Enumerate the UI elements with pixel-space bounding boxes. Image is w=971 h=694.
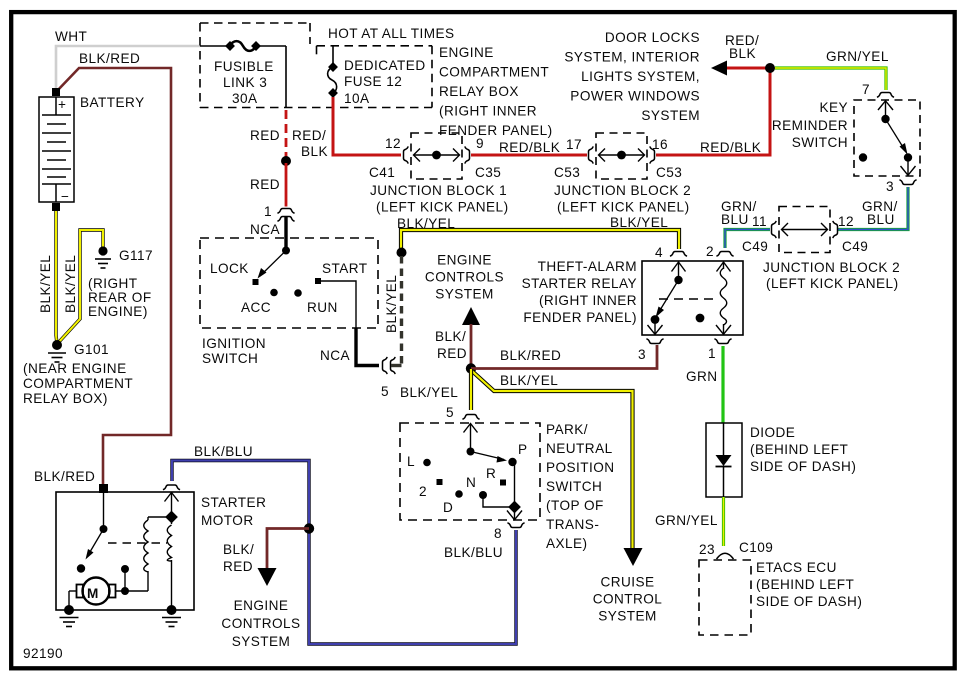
wire GRN/BLU C49 to relay pin 2 [725,230,770,249]
ignition switch arm [253,247,291,286]
starter M wiring [69,565,148,610]
ignition terminal ACC [270,289,278,297]
svg-text:C49: C49 [842,239,868,254]
wire RED from dedicated fuse to C41 [333,97,401,155]
svg-text:BLK/YEL: BLK/YEL [63,255,78,313]
svg-text:1: 1 [264,204,272,219]
svg-text:11: 11 [752,214,767,229]
svg-text:D: D [443,500,453,515]
svg-text:BLK/BLU: BLK/BLU [194,444,253,459]
wire NCA thick to connector [356,328,379,366]
svg-text:ENGINE: ENGINE [234,598,289,613]
svg-text:RELAY BOX: RELAY BOX [439,84,519,99]
svg-text:2: 2 [419,484,427,499]
svg-text:BLK/: BLK/ [435,329,466,344]
svg-text:NEUTRAL: NEUTRAL [546,441,613,456]
svg-text:RED/BLK: RED/BLK [700,140,761,155]
relay internal dashed link [659,298,716,300]
svg-text:SYSTEM: SYSTEM [598,609,657,624]
svg-text:MOTOR: MOTOR [201,513,254,528]
svg-text:STARTER RELAY: STARTER RELAY [522,276,637,291]
svg-text:NCA: NCA [250,222,281,237]
connector pin 5 park/neutral [462,415,479,420]
theft-alarm starter relay box [642,261,743,335]
svg-text:M: M [87,586,99,601]
svg-text:LOCK: LOCK [210,261,249,276]
svg-text:NCA: NCA [320,348,351,363]
svg-text:BLK/YEL: BLK/YEL [610,215,668,230]
svg-text:CRUISE: CRUISE [600,575,654,590]
svg-text:FENDER PANEL): FENDER PANEL) [523,310,637,325]
label ENGINE CONTROLS SYSTEM (upper) [425,253,504,302]
svg-text:ENGINE): ENGINE) [88,304,148,319]
svg-text:BLK/YEL: BLK/YEL [38,255,53,313]
svg-text:SYSTEM: SYSTEM [232,634,291,649]
svg-text:BLK/: BLK/ [223,542,254,557]
svg-text:+: + [58,97,66,112]
svg-text:12: 12 [385,136,401,151]
svg-text:SYSTEM: SYSTEM [435,287,494,302]
svg-text:ENGINE: ENGINE [437,253,492,268]
svg-text:SYSTEM, INTERIOR: SYSTEM, INTERIOR [564,50,700,65]
svg-text:FUSE 12: FUSE 12 [344,74,402,89]
svg-text:BLK/YEL: BLK/YEL [500,373,558,388]
svg-text:BLK/RED: BLK/RED [34,469,95,484]
label ENGINE CONTROLS SYSTEM (lower) [221,598,300,649]
wire WHT from battery + to fusible link [56,46,200,91]
junction connector C53/C53 junction block 2 [589,133,655,179]
svg-text:C53: C53 [656,165,682,180]
svg-text:POWER WINDOWS: POWER WINDOWS [570,89,700,104]
svg-text:SWITCH: SWITCH [202,351,258,366]
wire BLK/RED node to engine controls arrow [267,529,309,570]
node battery negative terminal [52,203,60,211]
svg-text:POSITION: POSITION [546,460,615,475]
connector pin 3 relay [646,339,663,344]
ignition switch box (dashed) [200,238,378,328]
svg-text:ETACS ECU: ETACS ECU [756,560,837,575]
svg-text:BLK/RED: BLK/RED [500,348,561,363]
connector pin 2 relay [716,252,733,257]
svg-text:BLK/YEL: BLK/YEL [400,385,458,400]
fusible link box (dashed) [200,23,432,108]
svg-text:RED/BLK: RED/BLK [499,140,560,155]
svg-text:92190: 92190 [23,646,63,661]
svg-text:(BEHIND LEFT: (BEHIND LEFT [756,577,854,592]
starter internal dashed link [108,542,167,544]
svg-text:SIDE OF DASH): SIDE OF DASH) [750,459,856,474]
svg-text:30A: 30A [232,91,258,106]
svg-text:BLK/BLU: BLK/BLU [444,545,503,560]
connector starter motor pin [163,485,180,490]
svg-text:DOOR LOCKS: DOOR LOCKS [605,30,700,45]
svg-text:(LEFT KICK PANEL): (LEFT KICK PANEL) [557,200,690,215]
wire BLK/YEL battery to G101 [56,211,57,344]
svg-text:R: R [486,466,496,481]
fusible link FL3 element [200,41,286,107]
svg-text:L: L [407,454,415,469]
svg-text:5: 5 [381,384,389,399]
diode D1 [706,423,742,497]
park/neutral terminal 2 [437,479,443,485]
wire GRN/YEL diode to ETACS [722,497,725,546]
wire RED solid to ignition pin 1 [285,163,288,207]
wire NCA from START out of box [321,281,356,328]
svg-text:DIODE: DIODE [750,425,795,440]
svg-text:JUNCTION BLOCK 2: JUNCTION BLOCK 2 [554,183,691,198]
connector pin 4 relay [670,252,687,257]
svg-text:G101: G101 [74,342,109,357]
node at (770,68) [765,63,775,73]
svg-text:P: P [518,442,528,457]
svg-text:SWITCH: SWITCH [546,479,602,494]
svg-text:FENDER PANEL): FENDER PANEL) [439,123,553,138]
wire GRN/YEL node to key reminder switch [775,68,886,90]
svg-text:C35: C35 [475,165,501,180]
svg-text:17: 17 [566,137,582,152]
svg-text:G117: G117 [119,248,153,263]
wire BLK/YEL dashed short from connector [391,364,402,367]
wire black pin1 into ignition switch [284,217,287,249]
svg-text:BLU: BLU [721,212,749,227]
junction connector C49 [772,207,838,253]
svg-text:SWITCH: SWITCH [792,135,848,150]
connector pin 8 park/neutral [507,523,524,528]
svg-text:16: 16 [652,137,668,152]
svg-text:ENGINE: ENGINE [439,45,494,60]
svg-text:START: START [322,261,368,276]
svg-text:BLU: BLU [867,212,895,227]
connector pin 1 ignition switch (two halves) [277,209,294,214]
svg-text:CONTROLS: CONTROLS [221,616,300,631]
svg-text:C53: C53 [554,165,580,180]
svg-text:JUNCTION BLOCK 1: JUNCTION BLOCK 1 [370,183,507,198]
svg-text:9: 9 [476,136,484,151]
svg-text:GRN: GRN [686,369,718,384]
svg-text:STARTER: STARTER [201,495,266,510]
svg-text:C109: C109 [739,540,773,555]
wire RED dashed below fusible link [285,110,288,158]
svg-text:3: 3 [886,179,894,194]
svg-text:REAR OF: REAR OF [88,290,152,305]
label THEFT-ALARM STARTER RELAY (RIGHT INNER FENDER PANEL) [522,259,637,325]
svg-text:3: 3 [638,347,646,362]
svg-text:2: 2 [706,244,714,259]
wire RED/BLK stub to arrow [722,67,770,70]
wire RED/BLK between junction blocks [471,154,587,157]
ground starter right [162,605,181,627]
svg-text:RED: RED [437,346,467,361]
svg-text:GRN/YEL: GRN/YEL [826,49,889,64]
svg-text:WHT: WHT [55,29,87,44]
node on RED wire [281,156,291,166]
svg-text:RED: RED [250,128,280,143]
svg-text:1: 1 [708,346,716,361]
node starter BLK/RED terminal [99,484,108,493]
svg-text:RED: RED [223,559,253,574]
svg-text:RUN: RUN [307,300,338,315]
park/neutral terminal D [455,490,463,498]
svg-text:TRANS-: TRANS- [546,517,599,532]
svg-text:FUSIBLE: FUSIBLE [214,59,274,74]
svg-text:ACC: ACC [241,300,271,315]
svg-text:RELAY BOX): RELAY BOX) [23,391,108,406]
park/neutral internal wiring [464,424,523,520]
svg-text:SIDE OF DASH): SIDE OF DASH) [756,594,862,609]
junction connector C41/C35 junction block 1 [404,133,470,179]
label CRUISE CONTROL SYSTEM [593,575,663,624]
relay switch branch [648,262,686,334]
svg-text:(BEHIND LEFT: (BEHIND LEFT [750,442,848,457]
starter motor box [56,492,194,610]
svg-text:LIGHTS SYSTEM,: LIGHTS SYSTEM, [581,69,700,84]
starter pin arrow and coils [144,493,179,611]
svg-text:5: 5 [446,405,454,420]
ignition terminal RUN [294,289,302,297]
wire BLK/RED from battery + down left side [56,68,171,487]
wire BLK/YEL node to cruise control [472,371,633,548]
svg-text:C41: C41 [369,165,395,180]
svg-text:BLK/RED: BLK/RED [79,51,140,66]
wire BLK/BLU starter to park/neutral [172,461,516,645]
svg-text:JUNCTION BLOCK 2: JUNCTION BLOCK 2 [763,260,900,275]
svg-text:REMINDER: REMINDER [772,118,848,133]
svg-text:(LEFT KICK PANEL): (LEFT KICK PANEL) [766,276,899,291]
svg-text:(NEAR ENGINE: (NEAR ENGINE [23,361,127,376]
dedicated fuse box (dashed) [317,46,433,108]
svg-text:8: 8 [494,526,502,541]
svg-text:(LEFT KICK PANEL): (LEFT KICK PANEL) [376,200,509,215]
starter solenoid switch arm [77,492,108,573]
svg-text:GRN/YEL: GRN/YEL [655,513,718,528]
battery B1 [39,97,74,204]
svg-text:KEY: KEY [819,100,848,115]
svg-text:12: 12 [838,214,854,229]
svg-text:LINK 3: LINK 3 [223,75,267,90]
park/neutral terminal L [423,459,431,467]
starter M motor [77,578,116,605]
svg-text:CONTROLS: CONTROLS [425,270,504,285]
park/neutral position switch box (dashed) [400,423,540,520]
svg-text:HOT AT ALL TIMES: HOT AT ALL TIMES [328,26,455,41]
svg-text:(RIGHT INNER: (RIGHT INNER [439,104,537,119]
connector pin 7 key reminder switch [877,93,894,98]
svg-text:C49: C49 [742,239,768,254]
svg-text:7: 7 [862,82,870,97]
key reminder switch KRS [854,100,920,176]
svg-text:RED: RED [250,177,280,192]
node battery positive terminal [52,88,60,96]
connector C109 dome [717,553,734,559]
ground G117 [95,246,111,268]
park/neutral terminal R [500,480,506,486]
svg-text:BATTERY: BATTERY [80,95,145,110]
svg-text:−: − [61,189,69,204]
wire BLK/YEL node down to park/neutral pin 5 [469,369,473,410]
node BLK/YEL dot [397,248,407,258]
svg-text:BLK: BLK [729,46,756,61]
svg-text:THEFT-ALARM: THEFT-ALARM [538,259,637,274]
svg-text:RED/: RED/ [292,128,326,143]
svg-text:AXLE): AXLE) [546,536,588,551]
wire BLK/YEL dashed vertical [400,256,403,367]
ignition terminal START [315,278,321,284]
svg-text:4: 4 [655,245,663,260]
connector pin 5 NCA (two halves) [383,357,388,374]
dedicated fuse 12 element [328,46,338,98]
svg-text:PARK/: PARK/ [546,422,588,437]
connector pin 1 relay [714,339,731,344]
svg-text:(TOP OF: (TOP OF [546,498,604,513]
svg-text:10A: 10A [344,91,370,106]
relay coil branch [716,262,731,334]
ground starter left [60,605,79,627]
arrow down to cruise control system [624,548,643,566]
wire BLK/YEL top run (junction blocks to relay pin4 / dot) [401,230,679,250]
arrow to door locks system [711,61,727,76]
svg-text:(RIGHT INNER: (RIGHT INNER [539,293,637,308]
wire GRN/BLU key switch to C49 [838,187,908,230]
relay internal dot [696,314,705,323]
svg-text:COMPARTMENT: COMPARTMENT [23,376,133,391]
svg-text:DEDICATED: DEDICATED [344,58,426,73]
node BLK junction mid [466,363,476,373]
node BLK/BLU junction [304,523,314,533]
connector pin 3 key reminder switch [899,180,916,185]
svg-text:23: 23 [699,542,715,557]
svg-text:(RIGHT: (RIGHT [88,276,138,291]
label DOOR LOCKS SYSTEM, INTERIOR LIGHTS SYSTEM, POWER WINDOWS SYSTEM [564,30,700,123]
wire RED/BLK from C53 up to door locks node [656,70,770,155]
arrow up to engine controls system [462,307,480,325]
wire GRN relay pin1 to diode [721,346,724,423]
arrow down to engine controls system (lower) [258,568,277,586]
ground G101 [48,340,66,362]
svg-text:IGNITION: IGNITION [202,336,266,351]
wire BLK/RED node to relay pin 3 [471,345,657,369]
svg-text:N: N [466,475,476,490]
svg-text:BLK/YEL: BLK/YEL [384,275,399,333]
svg-text:BLK: BLK [301,144,328,159]
wire BLK/RED node up to arrow [470,324,473,368]
svg-text:SYSTEM: SYSTEM [641,108,700,123]
label KEY REMINDER SWITCH [772,100,848,150]
svg-text:COMPARTMENT: COMPARTMENT [439,65,549,80]
ETACS ECU box (dashed) [699,560,751,635]
svg-text:CONTROL: CONTROL [593,592,663,607]
wire BLK/YEL G101 to G117 [58,230,103,343]
